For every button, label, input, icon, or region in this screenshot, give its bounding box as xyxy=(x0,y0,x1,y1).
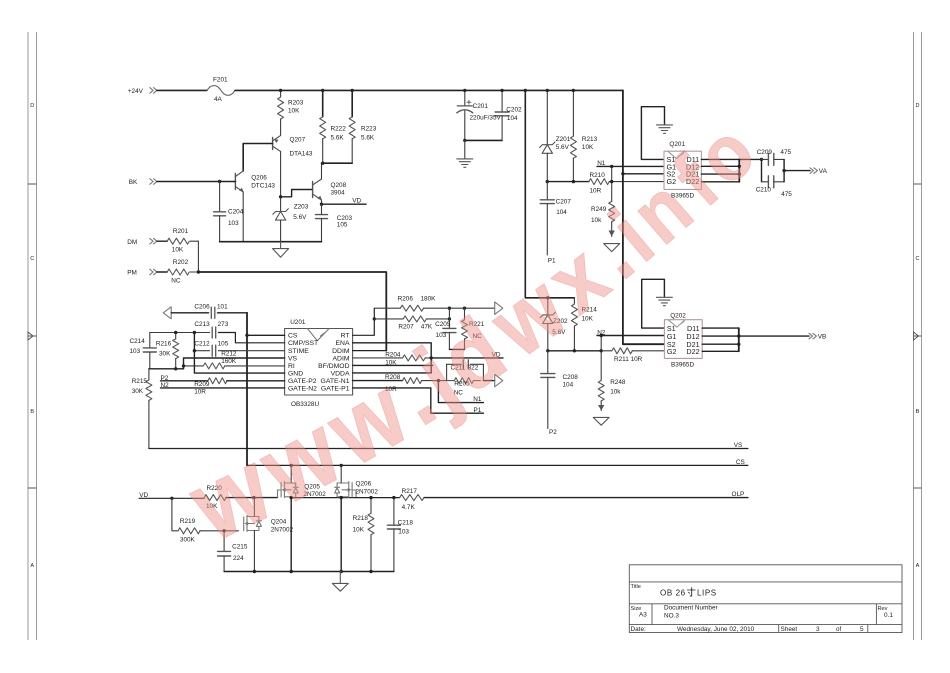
svg-text:Sheet: Sheet xyxy=(781,626,798,633)
transistor Q205 2N7002 xyxy=(278,482,327,499)
svg-text:C218: C218 xyxy=(398,520,414,527)
resistor R249 xyxy=(591,201,615,236)
svg-text:STIME: STIME xyxy=(288,348,309,355)
svg-text:D: D xyxy=(30,103,34,109)
capacitor C211 / resistor R205 parallel xyxy=(447,360,484,397)
svg-text:Q202: Q202 xyxy=(670,313,686,320)
svg-text:C208: C208 xyxy=(563,374,579,381)
port DM xyxy=(127,238,157,246)
port VA xyxy=(810,168,828,175)
mosfet pair Q202 B3965D xyxy=(664,313,702,369)
svg-text:C204: C204 xyxy=(228,209,244,216)
svg-text:R209: R209 xyxy=(194,381,210,388)
wire to Q208 base xyxy=(281,190,313,197)
svg-text:30K: 30K xyxy=(132,388,144,395)
svg-text:C206: C206 xyxy=(194,304,210,311)
svg-text:U201: U201 xyxy=(290,319,306,326)
wire C214/R216 bottom tie xyxy=(149,368,184,370)
svg-text:R210: R210 xyxy=(590,172,606,179)
svg-text:C202: C202 xyxy=(506,106,522,113)
svg-text:R248: R248 xyxy=(610,379,626,386)
svg-text:10K: 10K xyxy=(288,107,300,114)
svg-text:CMP/SST: CMP/SST xyxy=(288,340,318,347)
resistor R209 on GATE-P2 row xyxy=(161,378,285,396)
wire gate row between Q205 and Q206 xyxy=(291,497,356,499)
capacitor C213 xyxy=(150,321,285,343)
svg-text:Z201: Z201 xyxy=(556,136,571,143)
wire CS long line xyxy=(247,464,748,466)
svg-text:5.6K: 5.6K xyxy=(331,134,345,141)
wire CS net vertical xyxy=(246,313,248,466)
capacitor C209 xyxy=(757,149,792,166)
port (triangle) C206 left xyxy=(163,307,171,319)
svg-text:B: B xyxy=(916,409,920,415)
fuse F201 xyxy=(207,77,235,103)
svg-text:OB 26: OB 26 xyxy=(660,589,686,598)
resistor R212 xyxy=(184,351,285,369)
zener Z201 xyxy=(540,90,571,181)
wire R222/R223 bottom rail xyxy=(322,162,353,164)
svg-text:4A: 4A xyxy=(214,96,223,103)
wire bottom rail xyxy=(224,571,394,573)
wire C201 to C202 bottom xyxy=(465,139,502,141)
wire +24V rail xyxy=(235,89,623,91)
svg-text:A: A xyxy=(30,563,34,569)
capacitor C210 xyxy=(756,176,793,198)
wires Q202 drains to bus xyxy=(702,328,739,351)
svg-text:R203: R203 xyxy=(288,100,304,107)
wire to gate drive port 2 xyxy=(483,380,494,382)
svg-text:GND: GND xyxy=(288,371,303,378)
TITLE BLOCK xyxy=(629,565,902,633)
svg-text:DDIM: DDIM xyxy=(332,348,350,355)
svg-text:C201: C201 xyxy=(473,103,489,110)
svg-text:0.1: 0.1 xyxy=(884,612,893,619)
svg-text:DTC143: DTC143 xyxy=(251,182,275,189)
svg-text:104: 104 xyxy=(563,381,574,388)
zener Z202 xyxy=(540,298,568,351)
transistor Q208 3904 xyxy=(313,179,347,200)
svg-text:2N7002: 2N7002 xyxy=(356,489,379,496)
svg-text:Title: Title xyxy=(631,584,641,590)
svg-text:Document Number: Document Number xyxy=(664,605,719,612)
resistor R218 xyxy=(353,498,374,572)
node VD xyxy=(320,203,323,206)
svg-text:105: 105 xyxy=(337,221,348,228)
wire VS long line xyxy=(149,448,748,450)
wire RT to R206/R207 xyxy=(353,308,375,335)
svg-text:Q206: Q206 xyxy=(251,175,267,182)
ic U201 OB3328U xyxy=(285,319,353,408)
svg-text:273: 273 xyxy=(218,321,229,328)
svg-text:R211 10R: R211 10R xyxy=(614,356,643,363)
svg-text:Q207: Q207 xyxy=(290,137,306,144)
svg-text:R218: R218 xyxy=(353,515,369,522)
svg-text:VS: VS xyxy=(734,442,743,449)
wire bottom rail of BJT section xyxy=(220,241,322,243)
svg-text:Date:: Date: xyxy=(631,626,646,633)
transistor Q206 DTC143 xyxy=(235,171,275,192)
svg-text:300K: 300K xyxy=(180,536,196,543)
svg-text:10R: 10R xyxy=(590,187,602,194)
wire Q206 emitter down xyxy=(242,192,244,242)
resistor R219 xyxy=(172,498,239,543)
svg-text:C210: C210 xyxy=(756,187,772,194)
svg-text:5.6V: 5.6V xyxy=(556,144,570,151)
resistor R216 xyxy=(156,333,179,369)
capacitor C202 xyxy=(495,90,522,140)
svg-text:Z203: Z203 xyxy=(294,203,309,210)
capacitor C204 xyxy=(214,182,244,242)
wire Q208 collector up xyxy=(321,163,323,179)
svg-text:DM: DM xyxy=(127,239,137,246)
wire gate row to R217 xyxy=(356,497,400,499)
svg-text:103: 103 xyxy=(398,528,409,535)
svg-text:104: 104 xyxy=(556,209,567,216)
svg-text:R202: R202 xyxy=(173,259,189,266)
svg-text:10R: 10R xyxy=(194,389,206,396)
svg-text:4.7K: 4.7K xyxy=(402,504,416,511)
wire Q207 base to Q206 collector xyxy=(243,144,272,172)
svg-text:GATE-P2: GATE-P2 xyxy=(288,378,317,385)
svg-text:104: 104 xyxy=(507,115,518,122)
capacitor C206 xyxy=(171,304,247,319)
svg-text:103: 103 xyxy=(130,348,141,355)
capacitor C214 xyxy=(130,333,157,369)
node VD xyxy=(430,356,433,359)
resistor R210 xyxy=(589,172,664,194)
wires Q201 drains to bus xyxy=(701,159,739,181)
ground (arrow+triangle) below R249 xyxy=(604,231,620,252)
resistor R207 xyxy=(374,316,449,331)
resistor R211 xyxy=(601,348,664,363)
svg-text:5.6V: 5.6V xyxy=(293,214,307,221)
wire S2 Q201 xyxy=(623,173,664,175)
svg-text:R206: R206 xyxy=(398,295,414,302)
svg-text:3904: 3904 xyxy=(331,190,346,197)
WATERMARK xyxy=(172,107,771,563)
resistor R248 xyxy=(598,379,626,410)
svg-text:VS: VS xyxy=(288,355,298,362)
resistor R221 xyxy=(462,308,485,349)
svg-text:VB: VB xyxy=(818,334,827,341)
svg-text:C214: C214 xyxy=(130,338,146,345)
svg-text:3: 3 xyxy=(816,626,820,633)
svg-text:P2: P2 xyxy=(549,429,557,436)
resistor R215 xyxy=(132,369,152,449)
svg-text:+24V: +24V xyxy=(128,88,144,95)
wire GATE-P1 to P1 stub xyxy=(353,388,484,413)
wire N1 vertical xyxy=(611,166,613,201)
resistor R214 xyxy=(571,298,597,351)
port PM xyxy=(127,269,157,277)
svg-text:F201: F201 xyxy=(213,77,228,84)
port BK xyxy=(129,179,157,187)
svg-text:30K: 30K xyxy=(159,351,171,358)
svg-text:B3965D: B3965D xyxy=(671,362,694,369)
svg-text:VD: VD xyxy=(352,198,361,205)
svg-text:Wednesday, June 02, 2010: Wednesday, June 02, 2010 xyxy=(677,626,755,633)
svg-text:C209: C209 xyxy=(757,149,773,156)
rail junction dots xyxy=(279,89,575,92)
ground (triangle) below bottom rail xyxy=(332,572,348,592)
svg-text:180K: 180K xyxy=(421,295,437,302)
wire Q204 drain up xyxy=(253,498,255,517)
resistor R220 xyxy=(204,485,277,510)
svg-text:B: B xyxy=(30,409,34,415)
wire bus to output caps xyxy=(739,158,761,160)
resistor R208 (GATE-N1) xyxy=(353,374,447,393)
wire Q202 S1 to ground loop xyxy=(642,279,665,328)
svg-text:of: of xyxy=(836,626,842,633)
zener Z203 xyxy=(273,152,309,242)
node BK/C204 xyxy=(218,180,221,183)
port VB xyxy=(809,333,826,340)
capacitor C201 (electrolytic) xyxy=(457,90,502,140)
wire VD net xyxy=(322,203,367,205)
wire CS pin stub xyxy=(247,334,285,336)
resistor R203 xyxy=(278,90,304,135)
wire output bar xyxy=(783,159,785,181)
wire VDDA xyxy=(353,372,432,374)
svg-text:CS: CS xyxy=(736,459,745,466)
wire VS pin to tie xyxy=(184,358,285,369)
resistor R222 xyxy=(320,90,347,163)
wire OLP/VD row xyxy=(139,497,204,499)
wire PM to DDIM xyxy=(198,272,386,351)
svg-text:R216: R216 xyxy=(156,341,172,348)
svg-text:Q208: Q208 xyxy=(331,182,347,189)
wire Q204 source down xyxy=(253,531,255,572)
wire Q205 source down xyxy=(290,497,292,572)
svg-text:G2: G2 xyxy=(667,347,677,356)
svg-text:101: 101 xyxy=(217,304,228,311)
wire vertical feed to Z202/R214 xyxy=(525,90,574,297)
svg-text:A3: A3 xyxy=(639,612,647,619)
svg-text:A: A xyxy=(916,563,920,569)
ground (earth) at Q202 S1 xyxy=(656,297,672,305)
wire GND pin net xyxy=(194,333,284,374)
svg-text:R219: R219 xyxy=(180,518,196,525)
svg-text:5.6K: 5.6K xyxy=(361,134,375,141)
resistor R213 xyxy=(570,90,597,181)
svg-text:10K: 10K xyxy=(582,144,594,151)
svg-text:C213: C213 xyxy=(194,321,210,328)
svg-text:ADIM: ADIM xyxy=(333,355,350,362)
svg-text:LIPS: LIPS xyxy=(697,589,717,598)
wire Z202 node to R211 xyxy=(548,350,601,352)
svg-text:R207: R207 xyxy=(398,324,414,331)
node Q207 collector / Q208 base feed xyxy=(279,195,282,198)
svg-text:OLP: OLP xyxy=(732,491,745,498)
ground (earth) at Q201 S1 xyxy=(657,125,673,133)
wire BK to Q206 base xyxy=(157,181,235,183)
node R213 bottom xyxy=(572,180,575,183)
svg-text:103: 103 xyxy=(228,220,239,227)
wire ENA xyxy=(353,343,432,373)
svg-text:D22: D22 xyxy=(686,347,699,356)
port +24V xyxy=(128,88,157,95)
svg-text:R212: R212 xyxy=(221,351,237,358)
svg-text:475: 475 xyxy=(781,191,792,198)
svg-text:BF/DMOD: BF/DMOD xyxy=(318,363,349,370)
wire gate feed G2 row xyxy=(547,181,589,183)
capacitor C207 xyxy=(540,182,571,255)
wire BF/DMOD xyxy=(353,364,433,366)
wire DM joins PM xyxy=(197,241,199,272)
wire +24V down to S2 pins xyxy=(623,90,665,344)
resistor R206 xyxy=(374,295,494,311)
svg-text:BK: BK xyxy=(129,179,138,186)
resistor R204 (ADIM) xyxy=(353,351,432,366)
svg-text:C: C xyxy=(916,256,920,262)
node C201/C202 xyxy=(463,139,466,142)
svg-text:NO.3: NO.3 xyxy=(664,613,679,620)
capacitor C212 xyxy=(194,341,284,357)
resistor R223 xyxy=(349,90,377,163)
svg-text:10K: 10K xyxy=(172,247,184,254)
resistor R217 xyxy=(400,488,424,511)
capacitor C205 xyxy=(435,308,456,349)
mosfet pair Q201 B3965D xyxy=(664,141,701,199)
svg-text:R217: R217 xyxy=(402,488,418,495)
svg-text:R213: R213 xyxy=(582,136,598,143)
svg-text:NC: NC xyxy=(171,277,181,284)
wire Q205 drain to CS xyxy=(290,465,292,483)
wire Q206 source down xyxy=(340,497,342,572)
svg-text:CS: CS xyxy=(288,333,298,340)
resistor R201 xyxy=(157,228,198,253)
ground (triangle) below rail xyxy=(273,242,289,258)
svg-text:PM: PM xyxy=(127,270,137,277)
svg-text:10K: 10K xyxy=(353,526,365,533)
wire to VA xyxy=(784,170,810,172)
wire Q201 S1 to ground loop xyxy=(641,107,664,160)
transistor Q207 DTA143 xyxy=(273,136,313,158)
svg-text:5: 5 xyxy=(860,626,864,633)
svg-text:R215: R215 xyxy=(132,378,148,385)
wire N1 stub xyxy=(438,381,483,403)
wire Q206 drain to CS xyxy=(340,465,342,483)
transistor Q204 2N7002 xyxy=(244,516,294,534)
svg-text:105: 105 xyxy=(218,341,229,348)
port (triangle) gate drive 1 xyxy=(495,302,503,315)
wire Q208 emitter to VD xyxy=(321,200,323,204)
ground (earth) below C201 xyxy=(457,140,473,167)
wire N2 vertical xyxy=(600,336,602,381)
wire +24V to fuse xyxy=(157,89,207,91)
svg-text:C: C xyxy=(30,256,34,262)
svg-text:VA: VA xyxy=(819,168,828,175)
svg-text:RI: RI xyxy=(288,363,295,370)
svg-text:C212: C212 xyxy=(194,341,210,348)
ground (triangle) below R248 xyxy=(593,405,609,425)
svg-text:R223: R223 xyxy=(361,126,377,133)
svg-text:R222: R222 xyxy=(331,126,347,133)
wire VD net xyxy=(431,357,503,359)
svg-text:RT: RT xyxy=(341,333,350,340)
wire to VB xyxy=(739,335,809,337)
svg-text:D: D xyxy=(916,103,920,109)
wire DDIM xyxy=(353,350,387,352)
port (triangle) gate drive 2 xyxy=(495,374,503,387)
svg-text:475: 475 xyxy=(780,149,791,156)
capacitor C218 xyxy=(387,498,413,572)
transistor Q206 2N7002 (bottom) xyxy=(335,481,379,498)
resistor R202 xyxy=(157,259,198,284)
svg-text:160K: 160K xyxy=(221,358,237,365)
svg-text:10k: 10k xyxy=(610,389,621,396)
capacitor C208 xyxy=(541,351,578,429)
capacitor C215 xyxy=(218,531,248,572)
node Z201/C207 xyxy=(546,180,549,183)
svg-text:R201: R201 xyxy=(173,228,189,235)
svg-text:DTA143: DTA143 xyxy=(290,151,313,158)
capacitor C203 xyxy=(316,204,353,242)
wire OLP long line xyxy=(424,497,748,499)
svg-text:C207: C207 xyxy=(556,199,572,206)
wire C205/R221 bottom tie xyxy=(449,348,464,350)
svg-text:ENA: ENA xyxy=(336,340,350,347)
node DM/PM xyxy=(197,270,200,273)
